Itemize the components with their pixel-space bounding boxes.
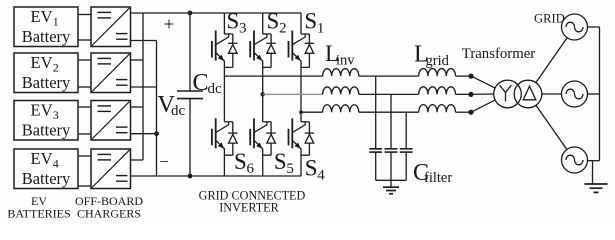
AC source grid phase 3 bbox=[562, 147, 588, 173]
svg-text:S: S bbox=[267, 9, 280, 34]
wire phase C to transformer bbox=[471, 100, 495, 112]
svg-text:dc: dc bbox=[171, 103, 186, 119]
wire bottom DC bus (- rail) bbox=[131, 175, 302, 177]
transistor S6 (IGBT with antiparallel diode) bbox=[212, 67, 238, 176]
wires battery EV4 to charger 4 bbox=[78, 156, 91, 186]
transistor S4 (IGBT with antiparallel diode) bbox=[289, 67, 315, 176]
wire grid source 2 to rail bbox=[588, 93, 600, 95]
wire phase C bbox=[301, 111, 323, 113]
svg-text:INVERTER: INVERTER bbox=[219, 201, 279, 215]
minus polarity mark bbox=[159, 152, 169, 171]
battery EV1 box bbox=[14, 7, 78, 47]
wire transformer to grid source 3 bbox=[536, 105, 567, 149]
inductor Linv phase B bbox=[323, 87, 359, 94]
inductor Lgrid phase A bbox=[419, 69, 456, 77]
wire charger3 + output bbox=[131, 106, 144, 108]
capacitor Cfilter phase C bbox=[400, 112, 413, 180]
wire phase B Linv to Lgrid bbox=[359, 93, 419, 95]
AC source grid phase 2 bbox=[562, 81, 588, 107]
node phase C junction bbox=[468, 110, 473, 115]
off-board charger 4 (DC/DC converter box) bbox=[91, 149, 131, 189]
section label EV BATTERIES bbox=[7, 194, 70, 221]
transistor S3 (IGBT with antiparallel diode) bbox=[212, 13, 238, 67]
wire phase C Linv to Lgrid bbox=[359, 111, 419, 113]
wire Cfilter common bus bbox=[376, 179, 407, 181]
svg-text:EV: EV bbox=[31, 53, 53, 72]
wire top DC bus (+ rail) bbox=[131, 12, 302, 14]
label Transformer bbox=[462, 46, 536, 62]
transformer primary winding (Y) bbox=[494, 80, 522, 108]
wire phase B (faded) bbox=[263, 93, 323, 95]
svg-text:inv: inv bbox=[336, 53, 355, 69]
svg-text:GRID: GRID bbox=[534, 12, 565, 26]
transistor S5 (IGBT with antiparallel diode) bbox=[250, 67, 276, 176]
wires battery EV3 to charger 3 bbox=[78, 107, 91, 134]
junction top bus / Cdc bbox=[188, 11, 193, 16]
label Cfilter bbox=[413, 160, 452, 186]
svg-text:CHARGERS: CHARGERS bbox=[77, 207, 141, 221]
wire charger3 - output bbox=[131, 133, 157, 135]
plus polarity mark bbox=[164, 15, 175, 36]
wire negative bus B vertical bbox=[156, 41, 158, 177]
wire phase A to transformer bbox=[471, 76, 495, 88]
svg-text:4: 4 bbox=[317, 168, 325, 184]
inductor Linv phase A bbox=[323, 69, 359, 76]
capacitor Cfilter phase B bbox=[385, 94, 398, 180]
section label OFF-BOARD CHARGERS bbox=[75, 194, 143, 221]
wire phase A to transformer node bbox=[456, 75, 472, 77]
wire grid rail vertical bbox=[599, 27, 601, 161]
label Lgrid bbox=[414, 42, 450, 70]
label S5 bbox=[274, 149, 294, 177]
svg-text:S: S bbox=[304, 9, 317, 34]
battery EV2 box bbox=[14, 53, 78, 93]
ground grid neutral bbox=[585, 161, 608, 193]
wire charger2 + output bbox=[131, 59, 144, 61]
node phase A junction bbox=[468, 74, 473, 79]
junction phase C tap bbox=[299, 110, 303, 114]
wire phase B to transformer bbox=[471, 93, 494, 95]
battery EV4 box bbox=[14, 149, 78, 189]
wire grid source 3 to rail bbox=[588, 160, 600, 162]
wire grid source 1 to rail bbox=[588, 26, 600, 28]
transistor S2 (IGBT with antiparallel diode) bbox=[250, 13, 276, 67]
battery EV3 label bbox=[22, 101, 71, 140]
battery EV1 label bbox=[22, 7, 71, 46]
wire charger4 + output bbox=[131, 159, 144, 161]
inductor Lgrid phase C bbox=[419, 105, 456, 113]
svg-text:BATTERIES: BATTERIES bbox=[7, 207, 70, 221]
svg-text:EV: EV bbox=[31, 101, 53, 120]
junction charger3 - bus B bbox=[154, 131, 159, 136]
label S4 bbox=[305, 156, 326, 184]
svg-text:S: S bbox=[227, 9, 240, 34]
label GRID bbox=[534, 12, 565, 26]
svg-text:S: S bbox=[234, 149, 247, 174]
battery EV3 box bbox=[14, 101, 78, 141]
wires battery EV1 to charger 1 bbox=[78, 15, 91, 41]
transistor S1 (IGBT with antiparallel diode) bbox=[289, 13, 315, 67]
svg-text:+: + bbox=[164, 15, 175, 36]
svg-text:Battery: Battery bbox=[22, 27, 71, 46]
svg-text:−: − bbox=[159, 152, 169, 171]
svg-text:C: C bbox=[193, 70, 209, 96]
transformer secondary winding (Delta) bbox=[514, 80, 542, 108]
svg-text:EV: EV bbox=[31, 7, 53, 26]
battery EV4 label bbox=[22, 149, 71, 188]
svg-text:S: S bbox=[305, 156, 318, 181]
ground Cfilter bbox=[383, 180, 399, 194]
svg-text:3: 3 bbox=[239, 21, 247, 37]
wire phase A Linv to Lgrid bbox=[359, 75, 419, 77]
wire transformer to grid source 1 bbox=[536, 38, 567, 83]
wire transformer to grid source 2 bbox=[542, 93, 562, 95]
wire charger2 - output bbox=[131, 86, 157, 88]
label S1 bbox=[304, 9, 324, 37]
svg-text:S: S bbox=[274, 149, 287, 174]
AC source grid phase 1 bbox=[562, 14, 588, 40]
svg-text:Battery: Battery bbox=[22, 169, 71, 188]
svg-text:5: 5 bbox=[286, 161, 294, 177]
label S3 bbox=[227, 9, 247, 37]
svg-text:dc: dc bbox=[208, 81, 223, 97]
junction bottom bus / Cdc bbox=[188, 174, 193, 179]
svg-text:1: 1 bbox=[317, 21, 325, 37]
wire phase B to transformer node bbox=[456, 93, 472, 95]
battery EV2 label bbox=[22, 53, 71, 92]
svg-text:2: 2 bbox=[279, 21, 287, 37]
label Vdc bbox=[158, 92, 186, 119]
svg-text:filter: filter bbox=[424, 170, 452, 186]
junction phase B tap bbox=[261, 92, 265, 96]
capacitor Cdc bbox=[177, 13, 203, 176]
svg-text:Transformer: Transformer bbox=[462, 46, 536, 62]
label S6 bbox=[234, 149, 255, 177]
capacitor Cfilter phase A bbox=[369, 76, 382, 180]
svg-text:Battery: Battery bbox=[22, 121, 71, 140]
off-board charger 1 (DC/DC converter box) bbox=[91, 7, 131, 47]
label Cdc bbox=[193, 70, 223, 97]
inductor Lgrid phase B bbox=[419, 87, 456, 95]
node phase B junction bbox=[468, 92, 473, 97]
wire phase C to transformer node bbox=[456, 111, 472, 113]
svg-text:EV: EV bbox=[31, 149, 53, 168]
off-board charger 3 (DC/DC converter box) bbox=[91, 101, 131, 141]
label S2 bbox=[267, 9, 287, 37]
off-board charger 2 (DC/DC converter box) bbox=[91, 53, 131, 93]
wires battery EV2 to charger 2 bbox=[78, 60, 91, 87]
wire charger1 - output bbox=[131, 40, 157, 42]
node phase A tap (S3/S6 midpoint) bbox=[224, 75, 322, 77]
wire positive bus A vertical bbox=[142, 13, 144, 160]
label Linv bbox=[325, 41, 355, 69]
svg-text:grid: grid bbox=[426, 53, 450, 69]
svg-text:Battery: Battery bbox=[22, 73, 71, 92]
label GRID CONNECTED INVERTER bbox=[199, 189, 306, 215]
svg-text:6: 6 bbox=[247, 161, 255, 177]
inductor Linv phase C bbox=[323, 105, 359, 112]
